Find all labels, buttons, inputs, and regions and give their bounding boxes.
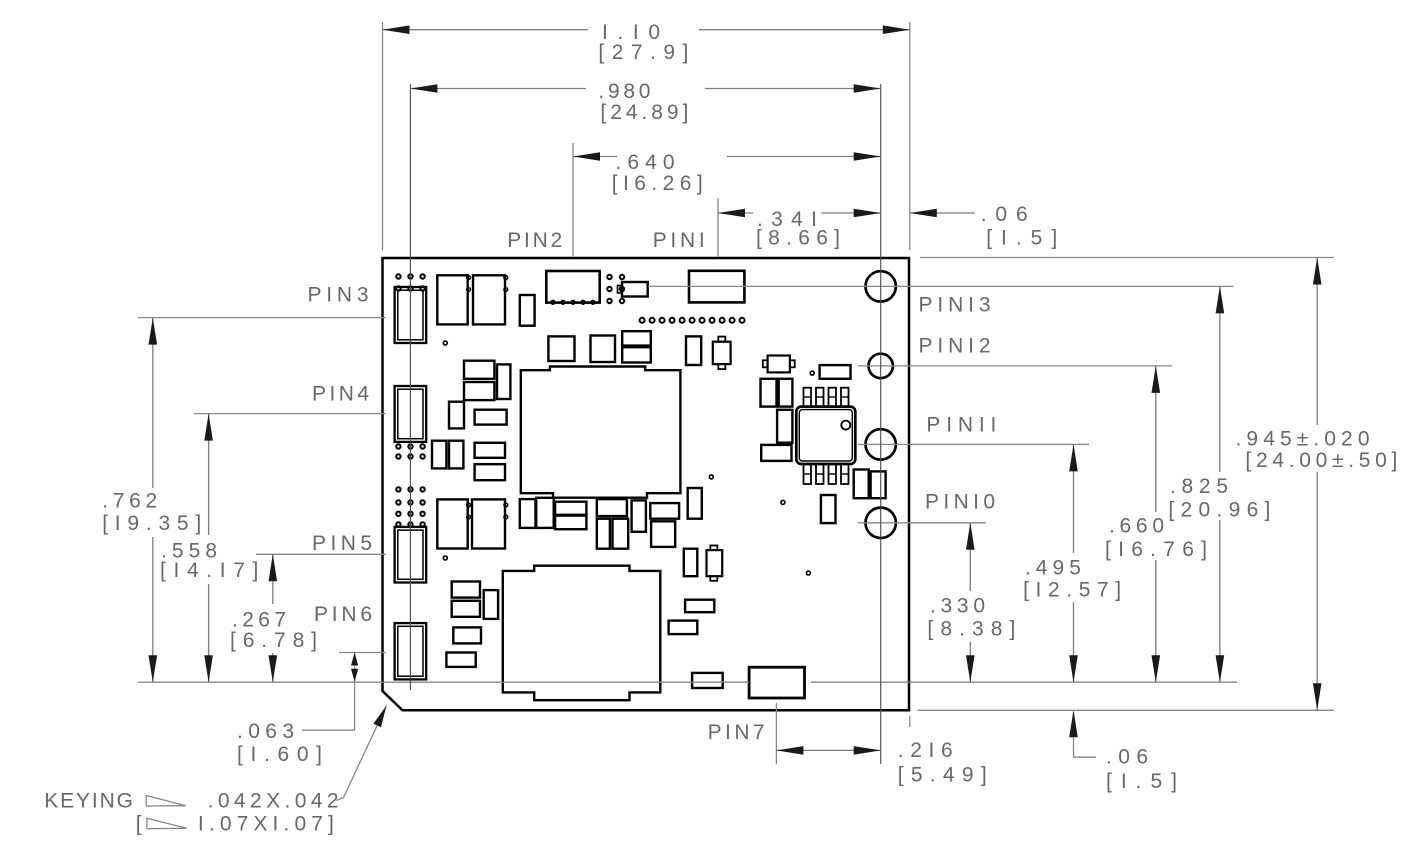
svg-text:[8.38]: [8.38] xyxy=(927,618,1015,641)
svg-text:[: [ xyxy=(136,813,142,836)
svg-text:[8.66]: [8.66] xyxy=(756,227,840,250)
svg-text:.042X.042: .042X.042 xyxy=(208,790,339,813)
svg-text:[6.78]: [6.78] xyxy=(230,629,317,652)
svg-text:PIN5: PIN5 xyxy=(312,532,372,555)
svg-text:PIN3: PIN3 xyxy=(308,284,369,307)
svg-text:[I6.26]: [I6.26] xyxy=(612,172,703,195)
svg-text:[20.96]: [20.96] xyxy=(1168,498,1270,521)
svg-text:[5.49]: [5.49] xyxy=(898,763,987,786)
svg-text:[I9.35]: [I9.35] xyxy=(102,512,201,535)
svg-text:PINI2: PINI2 xyxy=(919,335,991,358)
svg-text:[24.89]: [24.89] xyxy=(600,101,688,124)
svg-text:[I4.I7]: [I4.I7] xyxy=(160,559,258,582)
svg-text:PIN2: PIN2 xyxy=(507,229,562,252)
svg-text:PIN4: PIN4 xyxy=(312,383,369,406)
svg-text:[I2.57]: [I2.57] xyxy=(1023,579,1121,602)
svg-text:PINI0: PINI0 xyxy=(925,491,995,514)
svg-text:PIN7: PIN7 xyxy=(708,721,765,744)
svg-text:.945±.020: .945±.020 xyxy=(1236,427,1370,450)
svg-text:PINI3: PINI3 xyxy=(919,294,991,317)
svg-text:KEYING: KEYING xyxy=(44,790,133,813)
svg-text:PIN6: PIN6 xyxy=(314,603,372,626)
